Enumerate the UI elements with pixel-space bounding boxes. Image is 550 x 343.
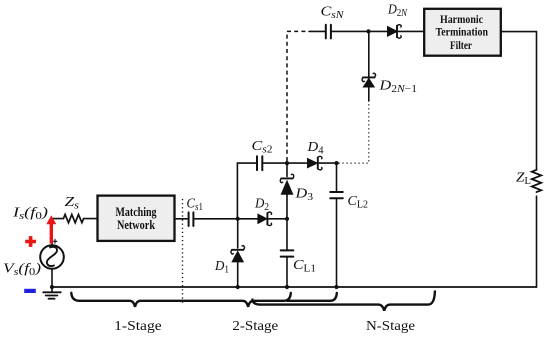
wire Cs1 to node A	[193, 218, 237, 220]
svg-text:CsN: CsN	[321, 5, 346, 22]
node: CsN-D2N junction	[366, 29, 370, 33]
resistor ZL	[532, 170, 541, 192]
capacitor Cs1	[189, 212, 194, 226]
svg-text:Filter: Filter	[450, 40, 472, 52]
svg-text:D2N−1: D2N−1	[378, 79, 417, 96]
ground	[51, 287, 53, 292]
svg-text:Cs2: Cs2	[252, 139, 273, 156]
svg-text:CL2: CL2	[348, 194, 369, 211]
wire Zs to matching network	[84, 218, 97, 220]
diode D3	[286, 163, 288, 176]
svg-text:D1: D1	[214, 259, 229, 276]
polarity plus (red)	[25, 236, 36, 247]
polarity mark + (small, black)	[53, 239, 57, 243]
node: CL2-rail junction	[334, 285, 338, 289]
capacitor Cs2	[257, 156, 262, 170]
diode D2N-1	[368, 87, 370, 101]
current arrow Is (red)	[50, 223, 53, 244]
node C junction	[285, 161, 289, 165]
bottom rail	[52, 286, 537, 288]
svg-text:2-Stage: 2-Stage	[232, 318, 278, 333]
node D junction	[334, 161, 338, 165]
stage labels	[114, 318, 415, 333]
wire MN to Cs1	[176, 218, 188, 220]
node: CL1-rail junction	[285, 285, 289, 289]
svg-text:D2N: D2N	[387, 3, 408, 20]
svg-text:Is(f0): Is(f0)	[12, 206, 49, 223]
dotted separator line after matching network	[182, 199, 184, 305]
matching network box	[98, 196, 175, 241]
dotted wire node D to D2N-1	[339, 101, 369, 163]
wire ZL to rail	[536, 196, 538, 287]
brace extension curl (right of 2-Stage)	[287, 293, 337, 301]
harmonic termination filter box	[424, 9, 501, 56]
svg-text:1-Stage: 1-Stage	[114, 318, 162, 333]
node: D1-rail junction	[236, 285, 240, 289]
wire node A up to Cs2 level	[237, 163, 256, 219]
diode D2	[238, 218, 258, 220]
svg-text:Zs: Zs	[65, 195, 80, 212]
brace 1-Stage and 2-Stage	[71, 293, 290, 307]
wire arrow to Zs	[52, 218, 63, 220]
wire source bottom to rail	[51, 268, 53, 287]
capacitor CL1	[286, 219, 288, 250]
svg-text:D2: D2	[254, 196, 269, 213]
resistor Zs	[63, 215, 83, 223]
svg-text:Termination: Termination	[436, 26, 489, 38]
svg-text:D4: D4	[306, 140, 323, 157]
capacitor CsN	[326, 25, 331, 39]
node A junction	[236, 217, 240, 221]
dashed wire node C up and to CsN	[287, 31, 306, 161]
svg-text:CL1: CL1	[293, 258, 316, 275]
source AC generator Vs	[40, 245, 64, 269]
diode D2N	[369, 30, 388, 32]
node: source-rail junction	[50, 285, 54, 289]
svg-text:N-Stage: N-Stage	[366, 318, 415, 333]
brace N-Stage	[252, 292, 435, 311]
box texts	[116, 14, 489, 232]
svg-text:ZL: ZL	[516, 171, 531, 188]
svg-text:Network: Network	[117, 218, 155, 232]
svg-text:D3: D3	[294, 187, 313, 204]
svg-text:Matching: Matching	[116, 205, 157, 219]
wire Cs2 to node C	[263, 162, 287, 164]
diode D1	[237, 219, 239, 248]
svg-text:Harmonic: Harmonic	[440, 14, 483, 26]
svg-text:Vs(f0): Vs(f0)	[3, 261, 41, 278]
diode D4	[287, 162, 308, 164]
wire HTF to ZL	[502, 32, 537, 170]
svg-text:Cs1: Cs1	[187, 196, 204, 213]
polarity minus (blue)	[24, 289, 36, 293]
capacitor CL2	[336, 163, 338, 191]
node B junction	[285, 217, 289, 221]
wire source top to arrow	[51, 222, 53, 246]
